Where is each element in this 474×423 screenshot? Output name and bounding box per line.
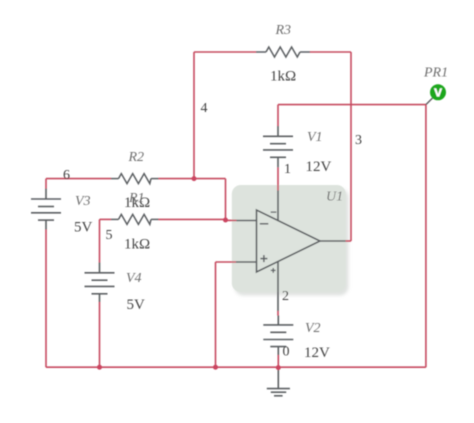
svg-text:1kΩ: 1kΩ bbox=[124, 237, 150, 253]
svg-text:0: 0 bbox=[283, 345, 290, 360]
svg-text:12V: 12V bbox=[306, 159, 332, 175]
svg-text:V3: V3 bbox=[75, 194, 91, 209]
svg-text:5V: 5V bbox=[74, 220, 93, 236]
svg-text:1: 1 bbox=[284, 162, 291, 177]
svg-text:R1: R1 bbox=[128, 191, 145, 206]
svg-text:5V: 5V bbox=[127, 297, 146, 313]
svg-text:V1: V1 bbox=[307, 130, 323, 145]
svg-text:V2: V2 bbox=[305, 321, 321, 336]
svg-text:12V: 12V bbox=[304, 345, 330, 361]
svg-text:6: 6 bbox=[63, 168, 70, 183]
svg-text:R3: R3 bbox=[275, 23, 292, 38]
svg-text:3: 3 bbox=[355, 133, 362, 148]
svg-text:PR1: PR1 bbox=[423, 66, 448, 81]
svg-text:V4: V4 bbox=[126, 271, 142, 286]
svg-text:U1: U1 bbox=[326, 190, 343, 205]
svg-text:R2: R2 bbox=[128, 150, 145, 165]
svg-text:1kΩ: 1kΩ bbox=[270, 69, 296, 85]
svg-text:5: 5 bbox=[106, 228, 113, 243]
svg-text:2: 2 bbox=[282, 289, 289, 304]
svg-text:4: 4 bbox=[201, 101, 208, 116]
